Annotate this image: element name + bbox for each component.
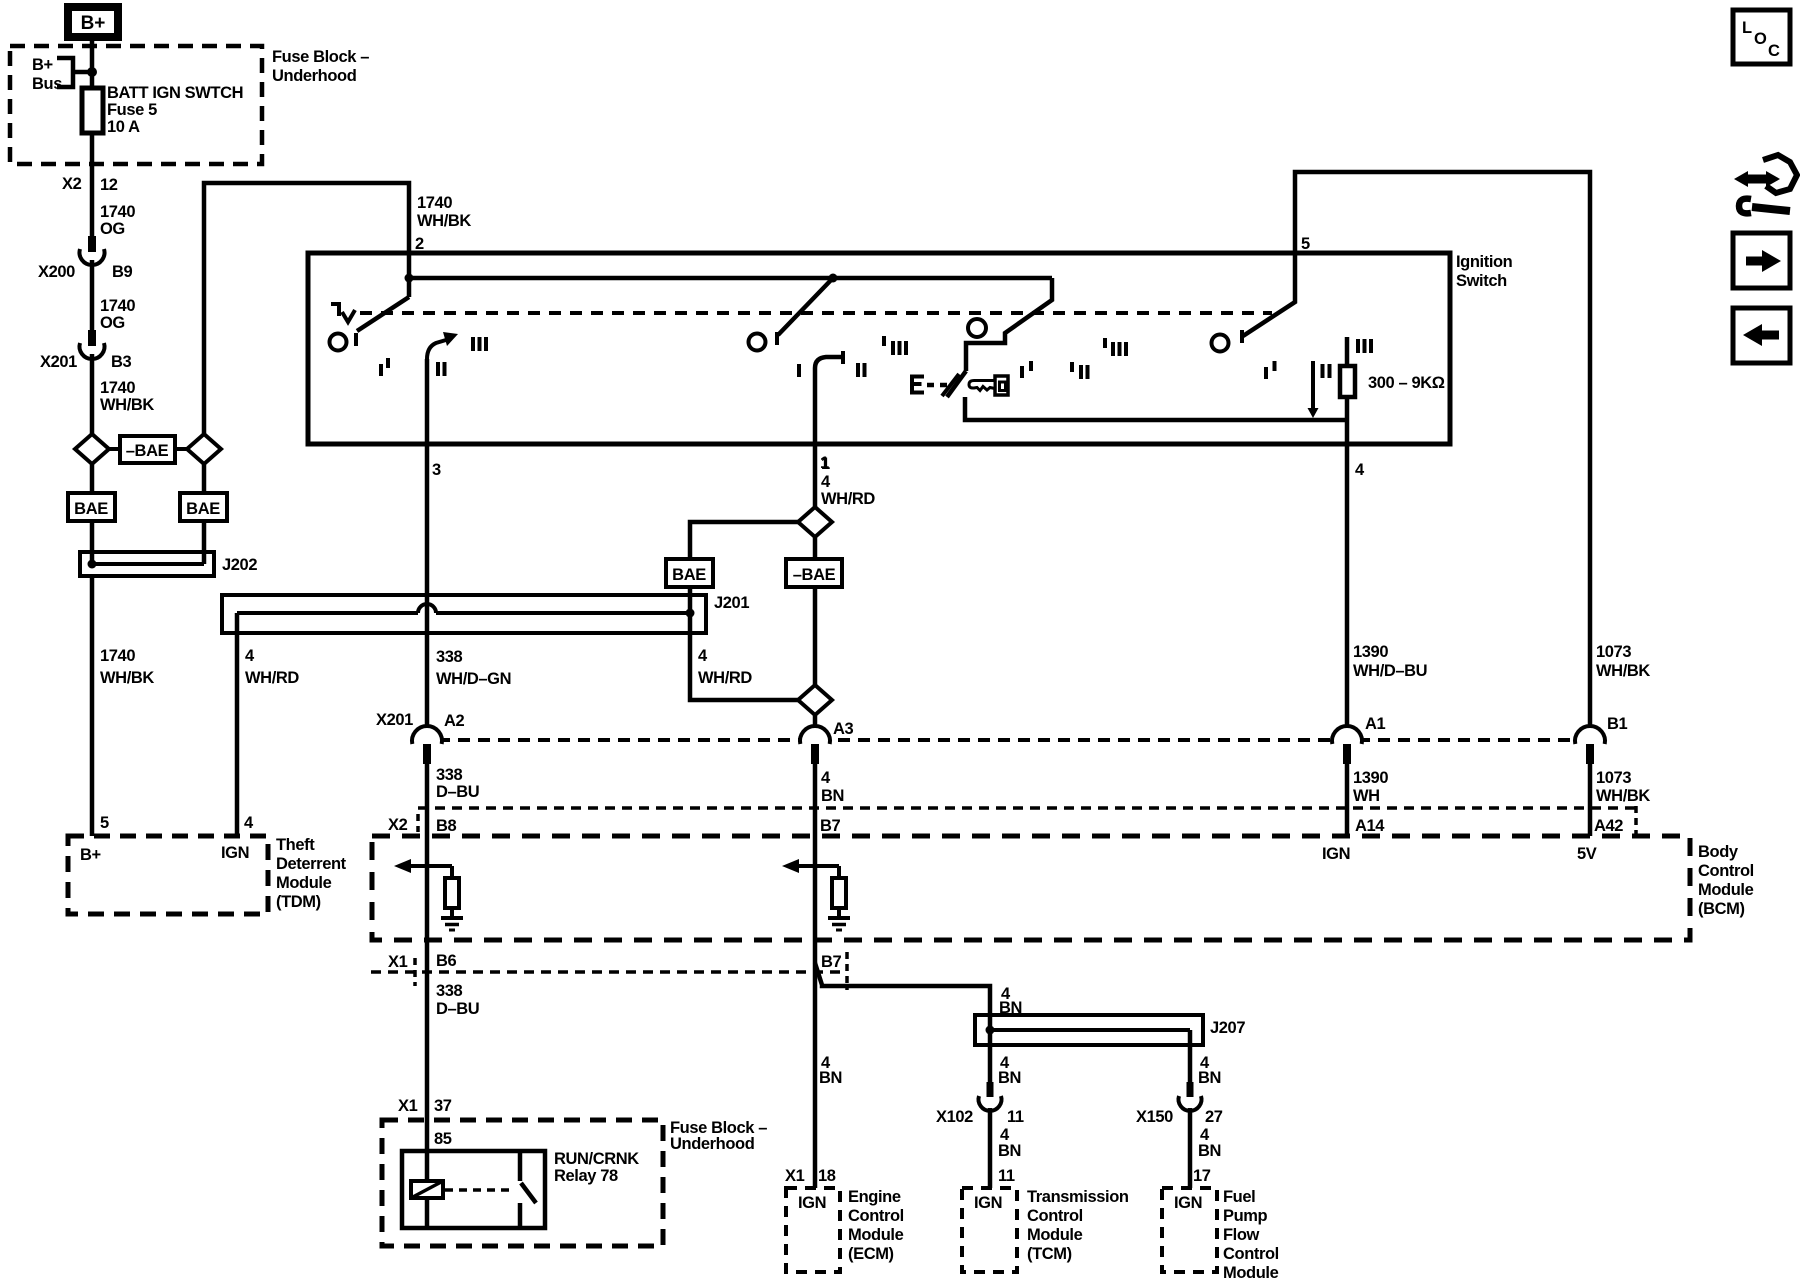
svg-text:300 – 9KΩ: 300 – 9KΩ <box>1368 374 1445 392</box>
resistor 300-9K lead <box>1345 337 1350 366</box>
fuse block underhood dashed box <box>10 46 262 164</box>
wire A2 to BCM B8 <box>425 760 430 866</box>
svg-text:X102: X102 <box>936 1108 973 1126</box>
start switch linkage <box>966 278 1052 371</box>
wire pin2 feed inside switch <box>407 253 412 297</box>
contact 1 terminal tick <box>354 333 358 346</box>
position mark I start <box>1022 361 1031 378</box>
svg-text:1740: 1740 <box>417 194 452 212</box>
node feed junction 2 <box>829 274 838 283</box>
svg-text:(BCM): (BCM) <box>1698 900 1745 918</box>
svg-text:WH/BK: WH/BK <box>100 669 154 687</box>
wire J201 left leg to TDM IGN <box>235 613 240 836</box>
position mark III switch2 <box>884 336 906 355</box>
svg-text:BN: BN <box>1198 1142 1221 1160</box>
svg-text:IGN: IGN <box>974 1194 1002 1212</box>
svg-text:Underhood: Underhood <box>670 1135 754 1153</box>
svg-text:OG: OG <box>100 220 125 238</box>
wire diamond B to A3 <box>813 715 818 740</box>
wire B+ to fuse <box>90 41 95 88</box>
connector A3 <box>800 720 854 764</box>
svg-text:WH: WH <box>1353 787 1380 805</box>
svg-text:X1: X1 <box>388 953 408 971</box>
relay 78 box <box>402 1151 545 1228</box>
connector B1 <box>1575 715 1628 764</box>
svg-text:18: 18 <box>818 1167 836 1185</box>
svg-text:1073: 1073 <box>1596 769 1631 787</box>
contact 1 circle <box>330 334 347 351</box>
X1 connector dotted row <box>371 970 847 974</box>
svg-text:WH/BK: WH/BK <box>100 396 154 414</box>
position mark II switch4 <box>1323 364 1330 378</box>
position mark II switch1 <box>438 362 445 376</box>
wire branch B7 to J207 <box>815 963 990 1030</box>
label box -BAE <box>109 436 187 463</box>
wire X102 to TCM <box>988 1108 993 1188</box>
svg-text:A2: A2 <box>444 712 465 730</box>
svg-text:X201: X201 <box>376 711 413 729</box>
fuel pump flow control module box <box>1162 1188 1217 1272</box>
switch contact 2 blade <box>778 278 833 335</box>
svg-text:Underhood: Underhood <box>272 67 356 85</box>
wire A1 to BCM A14 <box>1345 760 1350 836</box>
wire pin1 down to splice diamond <box>813 444 818 507</box>
label box BAE left <box>68 493 115 521</box>
wire -BAE to splice diamond B <box>813 587 818 685</box>
svg-text:Fuse Block –: Fuse Block – <box>272 48 369 66</box>
svg-text:37: 37 <box>434 1097 452 1115</box>
svg-text:BN: BN <box>821 787 844 805</box>
contact 2 circle <box>749 334 766 351</box>
svg-text:Theft: Theft <box>276 836 315 854</box>
svg-text:BN: BN <box>1198 1069 1221 1087</box>
contact 2 terminal tick <box>775 332 779 345</box>
connector row dashed line <box>418 738 1576 742</box>
svg-text:4: 4 <box>1355 461 1365 479</box>
svg-text:5V: 5V <box>1577 845 1597 863</box>
wire B1 to BCM A42 <box>1588 760 1593 836</box>
svg-text:Engine: Engine <box>848 1188 901 1206</box>
wire X201 to splice <box>90 354 95 434</box>
svg-text:4: 4 <box>698 647 708 665</box>
label box BAE middle <box>666 559 713 587</box>
svg-text:BAE: BAE <box>672 566 706 584</box>
svg-text:5: 5 <box>1301 235 1310 253</box>
switch contact 1 blade <box>357 297 409 331</box>
svg-text:Module: Module <box>848 1226 904 1244</box>
wire splice to BAE right <box>202 464 207 493</box>
fuse F5 BATT IGN SWTCH <box>82 84 243 136</box>
svg-text:B8: B8 <box>436 817 457 835</box>
position mark I switch2 <box>797 364 801 377</box>
svg-text:C: C <box>1768 42 1780 60</box>
svg-text:1740: 1740 <box>100 297 135 315</box>
splice diamond A <box>798 507 832 537</box>
svg-text:338: 338 <box>436 648 463 666</box>
switch contact 4 blade <box>1243 253 1295 336</box>
svg-text:BAE: BAE <box>74 500 108 518</box>
svg-text:Deterrent: Deterrent <box>276 855 347 873</box>
wire X200 to X201 <box>90 260 95 330</box>
wire pin3 with arrow to III <box>425 359 430 444</box>
svg-text:(ECM): (ECM) <box>848 1245 894 1263</box>
svg-text:B7: B7 <box>821 953 842 971</box>
position mark III switch1 <box>473 337 486 351</box>
wire fuse to X200 <box>90 133 95 236</box>
connector X200 B9 <box>38 236 133 281</box>
svg-text:IGN: IGN <box>1174 1194 1202 1212</box>
svg-text:A3: A3 <box>833 720 854 738</box>
engine control module ECM box <box>786 1188 840 1272</box>
connector A1 <box>1332 715 1386 764</box>
junction dot B+ bus <box>87 67 97 77</box>
X1 bracket ticks <box>415 952 847 990</box>
BCM pulldown resistor right <box>837 866 841 878</box>
position mark III start <box>1105 338 1126 356</box>
crank contact circle <box>968 319 986 337</box>
svg-text:1390: 1390 <box>1353 769 1388 787</box>
contact 4 terminal tick <box>1240 330 1244 343</box>
svg-text:WH/RD: WH/RD <box>821 490 875 508</box>
svg-text:WH/RD: WH/RD <box>698 669 752 687</box>
svg-text:Switch: Switch <box>1456 272 1507 290</box>
svg-text:IGN: IGN <box>798 1194 826 1212</box>
pin1 contact tick <box>841 351 845 364</box>
svg-text:Ignition: Ignition <box>1456 253 1513 271</box>
svg-text:WH/D–BU: WH/D–BU <box>1353 662 1427 680</box>
wire B6 to relay block <box>425 866 430 1181</box>
svg-text:1390: 1390 <box>1353 643 1388 661</box>
E terminal label <box>912 377 924 393</box>
label box -BAE middle <box>786 559 842 587</box>
svg-text:IGN: IGN <box>1322 845 1350 863</box>
svg-text:X200: X200 <box>38 263 75 281</box>
relay dashed actuator link <box>445 1188 512 1192</box>
wire BAE right to J202 <box>202 521 207 564</box>
svg-text:–BAE: –BAE <box>793 566 836 584</box>
BCM input arrow right <box>792 864 839 868</box>
wire A3 to BCM B7 <box>813 760 818 866</box>
svg-text:X150: X150 <box>1136 1108 1173 1126</box>
ground left <box>441 916 463 920</box>
splice diamond B <box>798 685 832 715</box>
wire diamond to BAE <box>690 522 798 559</box>
svg-text:(TCM): (TCM) <box>1027 1245 1072 1263</box>
svg-text:J201: J201 <box>714 594 749 612</box>
key icon <box>995 376 1008 395</box>
position mark I switch1 <box>381 358 388 376</box>
ground right <box>828 916 850 920</box>
ignition switch box <box>308 253 1450 444</box>
start bottom terminal wire <box>965 397 1347 420</box>
wire J202 to TDM B+ <box>90 576 95 836</box>
svg-text:B+: B+ <box>32 56 53 74</box>
svg-text:2: 2 <box>415 235 424 253</box>
X2 connector dotted row <box>418 806 1636 810</box>
wire BAE left to J202 <box>90 521 95 564</box>
svg-text:J202: J202 <box>222 556 257 574</box>
svg-text:A14: A14 <box>1355 817 1385 835</box>
svg-text:Transmission: Transmission <box>1027 1188 1129 1206</box>
svg-text:WH/BK: WH/BK <box>1596 662 1650 680</box>
wire branch to ignition switch pin 2 <box>204 183 409 434</box>
wire pin1 riser <box>815 357 843 444</box>
svg-text:X2: X2 <box>388 816 408 834</box>
svg-text:B1: B1 <box>1607 715 1628 733</box>
svg-text:B3: B3 <box>111 353 132 371</box>
right arrow box icon <box>1733 233 1790 288</box>
svg-text:Relay 78: Relay 78 <box>554 1167 618 1185</box>
wire J207 to X150 <box>1188 1030 1193 1082</box>
svg-text:Fuse 5: Fuse 5 <box>107 101 157 119</box>
contact 4 circle <box>1212 335 1229 352</box>
wire pin4 down to A1 <box>1345 444 1350 726</box>
svg-text:D–BU: D–BU <box>436 1000 479 1018</box>
svg-text:BN: BN <box>819 1069 842 1087</box>
left arrow box icon <box>1733 308 1790 363</box>
svg-text:4: 4 <box>245 647 255 665</box>
svg-text:B+: B+ <box>80 846 101 864</box>
svg-text:B7: B7 <box>820 817 841 835</box>
svg-text:Body: Body <box>1698 843 1739 861</box>
BCM input arrow left <box>404 864 452 868</box>
svg-text:Pump: Pump <box>1223 1207 1268 1225</box>
svg-text:BN: BN <box>998 1069 1021 1087</box>
svg-text:Bus: Bus <box>32 75 62 93</box>
relay coil <box>411 1181 443 1198</box>
switch position dashed line <box>360 311 1272 315</box>
svg-text:85: 85 <box>434 1130 452 1148</box>
svg-text:3: 3 <box>432 461 441 479</box>
svg-text:4: 4 <box>821 769 831 787</box>
svg-text:–BAE: –BAE <box>126 442 169 460</box>
svg-text:338: 338 <box>436 982 463 1000</box>
wire X150 to fuel pump module <box>1188 1108 1193 1188</box>
svg-text:X201: X201 <box>40 353 77 371</box>
wire splice to BAE left <box>90 464 95 493</box>
svg-text:D–BU: D–BU <box>436 783 479 801</box>
relay contact <box>518 1151 523 1181</box>
wire pin3 down through J201 <box>425 444 430 726</box>
position II wiper line <box>1311 361 1315 408</box>
splice diamond right <box>187 434 221 464</box>
accessory position icon <box>331 304 355 322</box>
wire BAE through J201 down <box>690 587 798 700</box>
svg-text:BN: BN <box>998 1142 1021 1160</box>
node pin2 junction <box>405 274 414 283</box>
svg-text:A1: A1 <box>1365 715 1386 733</box>
svg-text:BAE: BAE <box>186 500 220 518</box>
svg-text:4: 4 <box>821 473 831 491</box>
svg-text:Control: Control <box>848 1207 904 1225</box>
svg-text:338: 338 <box>436 766 463 784</box>
B+ power symbol box <box>68 7 118 37</box>
svg-text:O: O <box>1754 30 1767 48</box>
svg-text:1740: 1740 <box>100 203 135 221</box>
start switch blade <box>947 371 966 397</box>
svg-text:10 A: 10 A <box>107 118 140 136</box>
svg-text:B6: B6 <box>436 952 457 970</box>
svg-text:Module: Module <box>1027 1226 1083 1244</box>
svg-text:IGN: IGN <box>221 844 249 862</box>
theft deterrent module TDM box <box>68 836 268 914</box>
svg-text:27: 27 <box>1205 1108 1223 1126</box>
svg-text:1: 1 <box>821 455 830 473</box>
position mark I switch4 <box>1266 361 1275 379</box>
svg-text:1740: 1740 <box>100 647 135 665</box>
svg-text:11: 11 <box>998 1167 1015 1185</box>
resistor to pin4 wire <box>1345 397 1350 444</box>
resistor 300-9K <box>1340 366 1355 397</box>
tool arrow icon <box>1734 155 1797 213</box>
svg-text:1740: 1740 <box>100 379 135 397</box>
splice pack J207 <box>975 1015 1245 1045</box>
splice pack J202 <box>80 552 257 576</box>
body control module BCM box <box>372 836 1690 940</box>
svg-text:Control: Control <box>1223 1245 1279 1263</box>
splice pack J201 <box>222 594 749 633</box>
position mark III switch4 <box>1358 339 1371 353</box>
svg-text:WH/RD: WH/RD <box>245 669 299 687</box>
B+ Bus bar <box>32 56 92 93</box>
connector X150 <box>1136 1082 1223 1126</box>
position mark II start <box>1072 362 1088 379</box>
svg-text:Module: Module <box>1223 1264 1279 1280</box>
svg-text:WH/D–GN: WH/D–GN <box>436 670 511 688</box>
svg-text:BATT IGN SWTCH: BATT IGN SWTCH <box>107 84 243 102</box>
svg-text:WH/BK: WH/BK <box>417 212 471 230</box>
svg-text:11: 11 <box>1007 1108 1024 1126</box>
svg-text:12: 12 <box>100 176 118 194</box>
svg-text:RUN/CRNK: RUN/CRNK <box>554 1150 639 1168</box>
svg-text:Module: Module <box>1698 881 1754 899</box>
svg-text:Module: Module <box>276 874 332 892</box>
svg-text:A42: A42 <box>1594 817 1623 835</box>
svg-text:X1: X1 <box>398 1097 418 1115</box>
splice diamond left <box>75 434 109 464</box>
wire diamond to -BAE <box>813 537 818 559</box>
svg-text:B+: B+ <box>81 13 106 34</box>
svg-text:X1: X1 <box>785 1167 805 1185</box>
svg-text:4: 4 <box>244 814 254 832</box>
svg-text:Control: Control <box>1698 862 1754 880</box>
svg-text:Fuel: Fuel <box>1223 1188 1255 1206</box>
X2 bracket ticks <box>418 806 1636 836</box>
BCM pulldown resistor left <box>450 866 454 878</box>
connector X102 <box>936 1082 1024 1126</box>
transmission control module TCM box <box>962 1188 1017 1272</box>
connector A2 <box>376 711 465 764</box>
relay coil lower lead <box>425 1198 430 1228</box>
connector X201 B3 <box>40 330 132 371</box>
svg-text:Control: Control <box>1027 1207 1083 1225</box>
wire common feed line <box>409 276 1052 281</box>
E dashed link <box>927 383 948 388</box>
position mark II switch2 <box>858 363 865 377</box>
wire pin5 top loop to B1 <box>1295 172 1590 726</box>
svg-text:B9: B9 <box>112 263 133 281</box>
svg-text:J207: J207 <box>1210 1019 1245 1037</box>
svg-text:(TDM): (TDM) <box>276 893 321 911</box>
wire B7 to ECM <box>813 866 818 1188</box>
svg-text:5: 5 <box>100 814 109 832</box>
fuse block underhood relay dashed box <box>382 1120 663 1246</box>
svg-text:L: L <box>1742 19 1752 37</box>
wire J207 to X102 <box>988 1030 993 1082</box>
svg-text:1073: 1073 <box>1596 643 1631 661</box>
LOC box icon <box>1733 10 1790 64</box>
svg-text:OG: OG <box>100 314 125 332</box>
svg-text:WH/BK: WH/BK <box>1596 787 1650 805</box>
svg-text:17: 17 <box>1193 1167 1211 1185</box>
svg-text:X2: X2 <box>62 175 82 193</box>
svg-text:Flow: Flow <box>1223 1226 1260 1244</box>
label box BAE right <box>180 493 227 521</box>
